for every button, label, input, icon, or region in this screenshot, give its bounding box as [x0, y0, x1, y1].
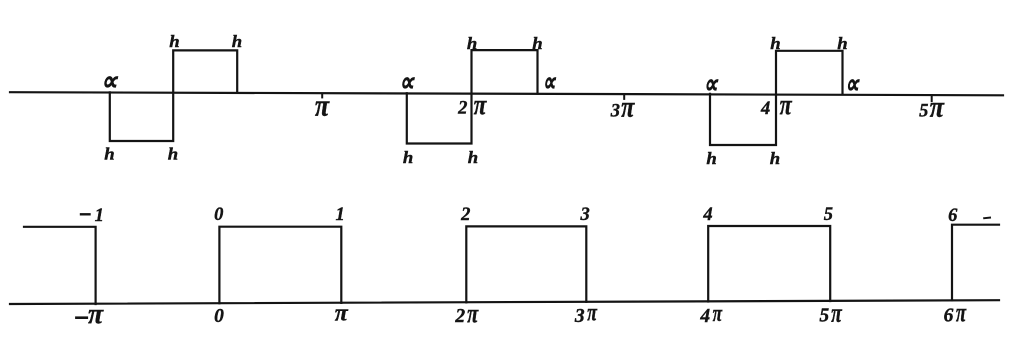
svg-text:h: h: [169, 32, 179, 51]
svg-text:6: 6: [944, 305, 954, 326]
minus of -1: [81, 213, 90, 215]
svg-text:∝: ∝: [101, 67, 118, 96]
top axis: [10, 92, 1003, 95]
svg-text:3: 3: [574, 306, 585, 327]
svg-text:2: 2: [454, 306, 465, 327]
svg-text:∝: ∝: [543, 67, 557, 96]
svg-text:h: h: [770, 34, 780, 53]
svg-text:h: h: [468, 148, 478, 167]
bottom pulse 4pi..5pi: [708, 226, 830, 302]
svg-text:∝: ∝: [399, 69, 415, 98]
tick 5pi: [931, 96, 933, 101]
svg-text:3: 3: [610, 102, 620, 122]
svg-text:h: h: [837, 34, 847, 53]
svg-text:2: 2: [460, 205, 470, 225]
svg-text:0: 0: [214, 306, 224, 327]
svg-text:5: 5: [819, 305, 829, 326]
bottom axis: [10, 300, 999, 304]
svg-text:2: 2: [457, 98, 467, 118]
svg-text:π: π: [621, 90, 635, 123]
svg-text:h: h: [104, 144, 114, 163]
top pulse pair at 4pi: [710, 51, 843, 145]
svg-text:5: 5: [919, 102, 928, 122]
svg-text:4: 4: [699, 306, 710, 327]
top pulse pair at 2pi: [407, 50, 538, 143]
svg-text:h: h: [532, 34, 542, 53]
bottom pulse 0..pi: [219, 227, 341, 304]
svg-text:h: h: [467, 34, 477, 53]
svg-text:h: h: [403, 148, 413, 167]
svg-text:h: h: [168, 144, 178, 163]
tick 3pi: [623, 95, 625, 99]
svg-text:π: π: [713, 299, 723, 327]
svg-text:4: 4: [702, 205, 712, 225]
bottom pulse 2pi..3pi: [466, 226, 586, 302]
svg-text:π: π: [467, 300, 479, 329]
tick pi: [321, 94, 323, 97]
svg-text:π: π: [335, 300, 349, 326]
svg-text:π: π: [930, 91, 945, 124]
svg-text:0: 0: [214, 205, 223, 225]
svg-text:π: π: [474, 89, 488, 121]
svg-text:6: 6: [948, 206, 958, 226]
minus of -pi: [76, 316, 86, 319]
svg-text:π: π: [956, 298, 967, 327]
svg-text:π: π: [315, 88, 330, 123]
svg-text:1: 1: [95, 206, 104, 226]
svg-text:π: π: [587, 299, 598, 327]
svg-text:h: h: [232, 32, 242, 51]
svg-text:5: 5: [824, 205, 833, 225]
svg-text:∝: ∝: [845, 70, 860, 100]
svg-text:∝: ∝: [703, 70, 718, 100]
svg-text:3: 3: [579, 205, 589, 225]
svg-text:1: 1: [335, 205, 344, 225]
svg-text:π: π: [88, 299, 104, 330]
bottom pulse rising at 6pi: [952, 225, 999, 301]
svg-text:h: h: [706, 149, 716, 168]
svg-text:h: h: [770, 149, 780, 168]
svg-text:π: π: [831, 299, 843, 327]
bottom partial pulse ending at -pi: [24, 227, 96, 304]
svg-text:4: 4: [760, 99, 770, 119]
stray dash top right: [984, 217, 990, 220]
top pulse pair at 0: [110, 50, 237, 141]
svg-text:π: π: [780, 91, 793, 121]
